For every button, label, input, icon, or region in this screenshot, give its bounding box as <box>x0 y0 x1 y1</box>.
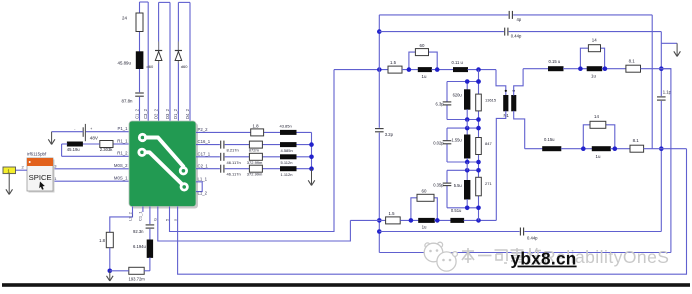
svg-text:M0S_2: M0S_2 <box>114 163 128 168</box>
svg-text:1.55u: 1.55u <box>451 138 461 143</box>
svg-text:43.85n: 43.85n <box>280 123 292 128</box>
svg-text:R1_1: R1_1 <box>117 138 128 143</box>
svg-text:13615: 13615 <box>485 98 497 103</box>
svg-text:1u: 1u <box>422 224 427 229</box>
svg-text:G: G <box>153 218 158 221</box>
svg-text:1.8: 1.8 <box>99 238 105 243</box>
svg-text:+: + <box>90 127 92 131</box>
svg-text:1.5: 1.5 <box>389 211 396 216</box>
svg-text:2.303k: 2.303k <box>100 147 113 152</box>
svg-text:620u: 620u <box>453 92 462 97</box>
svg-text:D4_2: D4_2 <box>185 108 190 119</box>
svg-text:SPICE: SPICE <box>29 173 52 182</box>
svg-text:193.72m: 193.72m <box>129 276 146 281</box>
svg-text:60: 60 <box>420 43 425 48</box>
svg-text:0.44p: 0.44p <box>527 236 538 241</box>
svg-text:92.3n: 92.3n <box>133 229 144 234</box>
svg-text:0.44p: 0.44p <box>511 34 522 39</box>
svg-text:46.117n: 46.117n <box>227 172 241 177</box>
svg-text:5.112n: 5.112n <box>281 160 293 165</box>
svg-text:6.3p: 6.3p <box>436 102 445 107</box>
svg-text:P2_2: P2_2 <box>198 127 209 132</box>
svg-text:14: 14 <box>594 114 599 119</box>
svg-text:1.5: 1.5 <box>390 60 397 65</box>
svg-text:1.8: 1.8 <box>253 123 260 128</box>
svg-text:C17_1: C17_1 <box>198 151 211 156</box>
svg-text:1u: 1u <box>422 74 427 79</box>
svg-text:1.112n: 1.112n <box>281 172 293 177</box>
svg-text:8.1: 8.1 <box>633 138 640 143</box>
svg-text:0.11 u: 0.11 u <box>452 60 464 65</box>
svg-text:0.51u: 0.51u <box>451 208 462 213</box>
svg-text:271: 271 <box>485 181 492 186</box>
svg-text:R1_2: R1_2 <box>117 151 128 156</box>
svg-text:847: 847 <box>485 141 492 146</box>
svg-text:1.1p: 1.1p <box>663 90 672 95</box>
svg-text:C16_1: C16_1 <box>198 139 211 144</box>
svg-text:s: s <box>172 219 177 221</box>
svg-text:872m: 872m <box>249 148 260 153</box>
svg-text:0.35p: 0.35p <box>433 183 444 188</box>
svg-text:C1_2: C1_2 <box>134 108 139 119</box>
svg-text:C2_1: C2_1 <box>198 163 209 168</box>
svg-text:372.99m: 372.99m <box>247 172 263 177</box>
svg-text:8.1: 8.1 <box>629 59 636 64</box>
svg-text:ybx8.cn: ybx8.cn <box>511 249 577 269</box>
svg-text:48V: 48V <box>90 136 99 141</box>
svg-text:-: - <box>74 128 75 132</box>
svg-text:6.194u: 6.194u <box>133 244 146 249</box>
svg-text:372.99m: 372.99m <box>247 160 263 165</box>
svg-text:L1_2: L1_2 <box>198 190 208 195</box>
svg-text:5.5u: 5.5u <box>454 183 462 188</box>
svg-text:4.585n: 4.585n <box>281 148 293 153</box>
svg-text:45.19u: 45.19u <box>67 147 80 152</box>
svg-text:4p: 4p <box>517 17 522 22</box>
svg-text:d60: d60 <box>147 64 154 69</box>
svg-text:D3_2: D3_2 <box>165 108 170 119</box>
svg-text:L2_2: L2_2 <box>127 211 132 221</box>
svg-text:D2_2: D2_2 <box>153 108 158 119</box>
svg-text:P1_1: P1_1 <box>117 126 128 131</box>
svg-text:M0S_1: M0S_1 <box>114 176 128 181</box>
svg-text:d60: d60 <box>181 64 188 69</box>
svg-text:8.217n: 8.217n <box>227 148 239 153</box>
svg-text:irf6115pbf: irf6115pbf <box>27 151 47 156</box>
svg-text:46.117n: 46.117n <box>227 160 241 165</box>
svg-text:C1_1: C1_1 <box>138 211 143 221</box>
svg-text:14: 14 <box>592 38 597 43</box>
svg-text:N1: N1 <box>504 113 510 118</box>
svg-text:3.2p: 3.2p <box>385 132 394 137</box>
svg-text:C3_2: C3_2 <box>143 108 148 119</box>
svg-text:60: 60 <box>422 189 427 194</box>
svg-text:L1_1: L1_1 <box>198 176 208 181</box>
svg-text:45.89u: 45.89u <box>118 61 132 66</box>
svg-text:24: 24 <box>122 16 127 21</box>
svg-text:87.8n: 87.8n <box>122 99 134 104</box>
svg-text:1u: 1u <box>596 154 601 159</box>
svg-text:0.02p: 0.02p <box>433 140 444 145</box>
svg-text:1u: 1u <box>591 73 596 78</box>
svg-text:0.15u: 0.15u <box>544 137 555 142</box>
svg-text:0.15 u: 0.15 u <box>549 59 561 64</box>
svg-text:D1_2: D1_2 <box>173 108 178 119</box>
